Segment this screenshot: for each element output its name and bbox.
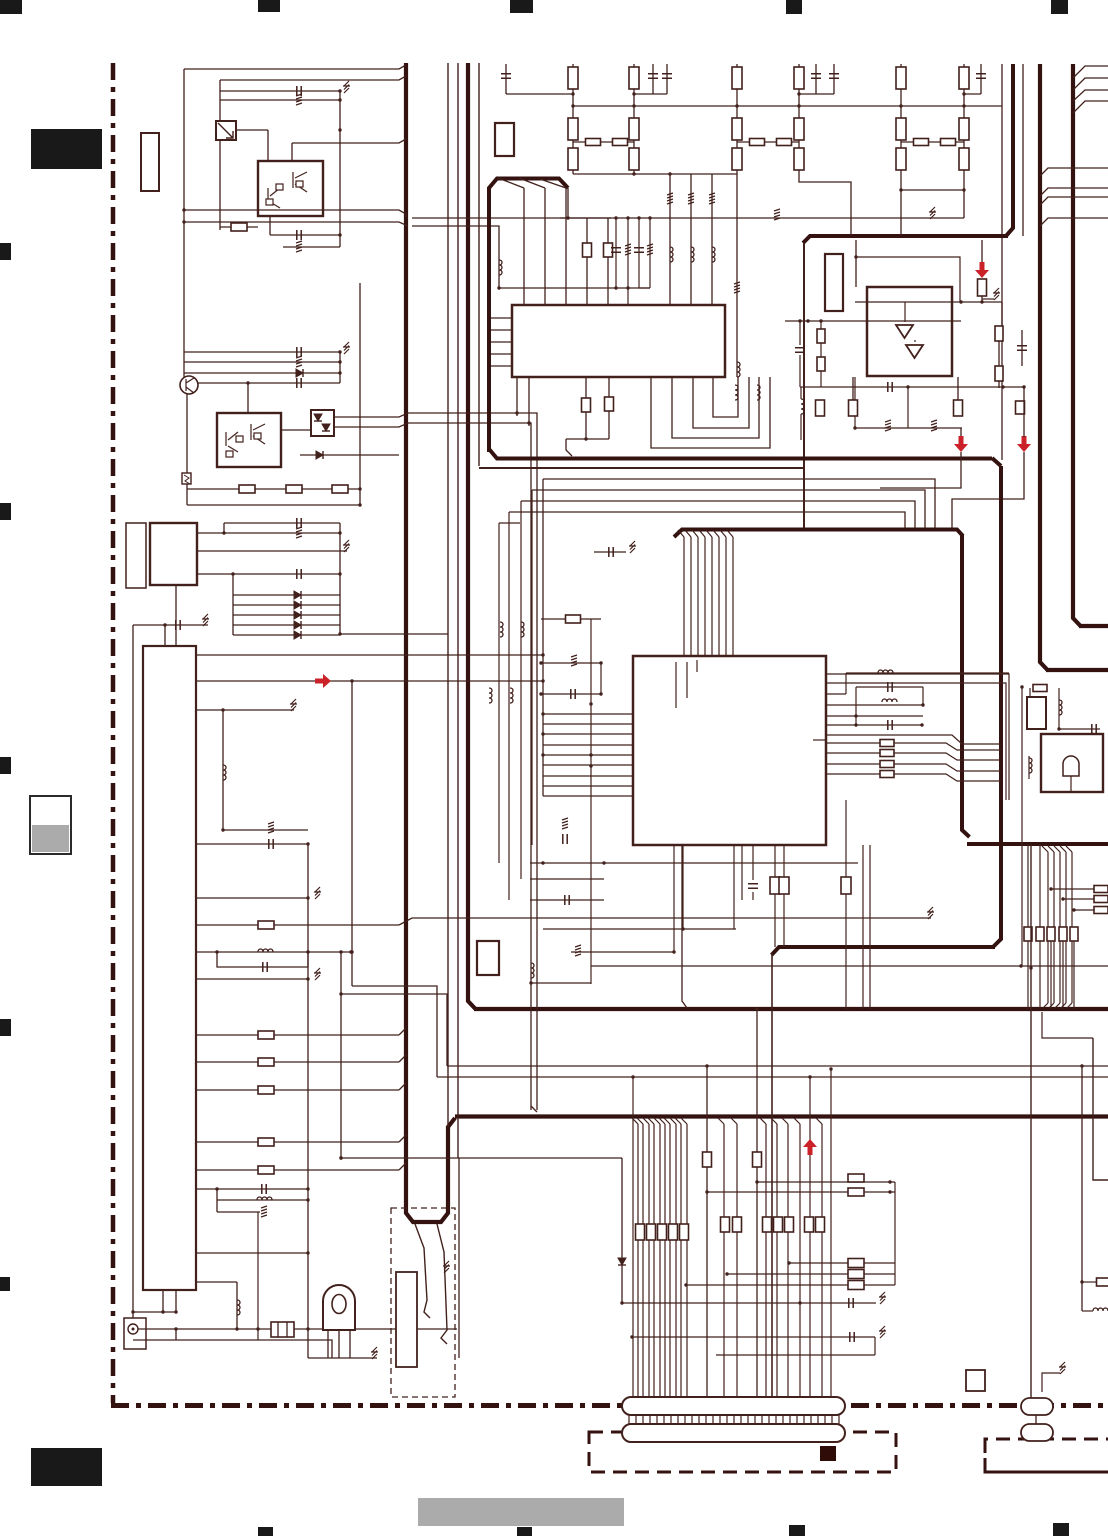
white ref box mid-top <box>495 123 514 156</box>
IC1 left stubs <box>491 317 512 319</box>
wire y257 <box>856 257 960 302</box>
wire x1082 lower right <box>1081 1066 1083 1311</box>
wire y1337 <box>632 1336 875 1338</box>
photo-interrupter box <box>216 121 236 140</box>
bypass cap path y967 <box>217 952 308 967</box>
right connector ellipse 1 <box>1021 1398 1053 1415</box>
bus wire x479 joining y468 rail <box>478 63 480 466</box>
thick rail y626 to right edge <box>1079 624 1108 628</box>
wire y428 with ferrites <box>855 427 962 429</box>
wire outer loop left x184 <box>183 69 185 377</box>
wire y1358 to ground <box>308 1357 377 1359</box>
wire x340 node column <box>339 91 341 247</box>
bundle wire x788 <box>782 1118 788 1124</box>
wire y1158 long <box>341 1157 622 1159</box>
wire opto out y418 <box>334 413 412 417</box>
logic gate glyph inside box D <box>1063 756 1079 776</box>
wire x341 <box>340 952 342 1158</box>
grid link y182 <box>799 174 851 236</box>
wire x186 lower <box>186 394 188 505</box>
resistor row y1224 group4 <box>805 1217 814 1232</box>
registration mark left 2 <box>0 503 11 520</box>
ferrite y247 <box>283 246 340 248</box>
dashed harness box bottom <box>589 1432 896 1472</box>
ladder output y634 <box>340 633 448 635</box>
IC1 top pin cap x616 <box>615 218 617 288</box>
box-C thick rail y844 <box>967 842 1108 846</box>
IC2 left bus x543 <box>542 479 544 796</box>
opto coupler box <box>311 410 334 436</box>
cap branch x800 <box>799 321 801 345</box>
five resistor row x1028-1074 <box>1024 927 1032 941</box>
wire right column x1002 <box>1001 302 1003 326</box>
wire y373 with diode <box>184 372 340 374</box>
wire loop box D top <box>1029 688 1031 697</box>
resistor x1020 y401 <box>1016 401 1025 414</box>
wire x176 stub <box>175 585 177 646</box>
wire x237 with coil <box>236 1282 238 1329</box>
bus wire x458 <box>457 63 459 1158</box>
rail y468 medium <box>479 467 804 469</box>
coil glyph 1 <box>735 385 738 400</box>
coil glyphs left of IC2 <box>500 622 503 637</box>
border left dash-dot <box>111 63 116 1403</box>
diode ladder row 4 <box>233 624 340 626</box>
coil right of rect <box>1058 688 1060 729</box>
bus vertical x804 from rail into mid section <box>803 243 805 529</box>
registration mark left 5 <box>0 1277 10 1291</box>
wire x360 <box>359 283 361 505</box>
op-amp triangle 1 <box>896 325 913 338</box>
wire y918 continuation <box>399 918 601 925</box>
diode ladder row 5 <box>233 634 340 636</box>
pin riser x846 <box>826 693 846 695</box>
capacitor stub x816 <box>815 64 817 94</box>
bundle wire x810 with red arrow <box>809 1077 811 1397</box>
wire x224 stub <box>223 523 225 533</box>
diode drop x622 <box>621 1158 623 1303</box>
diode ladder row 1 <box>233 594 340 596</box>
registration mark top 3 <box>510 0 533 13</box>
staircase wire y479 <box>543 479 935 529</box>
grid row y142 cluster 3 <box>901 141 964 143</box>
connector pin comb <box>629 1416 839 1425</box>
wire y900 with cap <box>530 899 604 901</box>
capacitor stub x981 <box>980 64 982 94</box>
resistor column x799 <box>798 64 800 174</box>
wire y729 with cap <box>1059 728 1100 730</box>
bus thick horizontal y1116 <box>455 1114 1108 1118</box>
wire y388 right <box>1023 388 1025 401</box>
thick jog y458-y466 <box>992 458 1001 466</box>
wire box bottom stub 1 <box>269 216 271 235</box>
bundle wire x737 <box>731 1118 737 1124</box>
wire y929 <box>543 928 736 930</box>
resistor column x634 <box>633 64 635 174</box>
LED symbol <box>323 1285 355 1330</box>
crystal box <box>271 1322 294 1337</box>
black label block bottom-left <box>31 1448 102 1486</box>
coil x801 bottom <box>800 387 802 399</box>
hres above box D <box>1033 687 1047 689</box>
fan of wires under box-C corner <box>678 530 684 537</box>
IC1 bottom stub b <box>528 377 530 426</box>
connector bar tall <box>143 646 196 1290</box>
wire stub into Q-bottom <box>247 383 249 413</box>
pin y743 resistor <box>826 742 880 744</box>
wire y100 with ferrite bead <box>220 99 340 101</box>
pin y774 resistor <box>826 773 880 775</box>
wire x895 link <box>894 1182 896 1285</box>
bundle wire x777 <box>771 1118 777 1124</box>
white box y1370 <box>966 1370 985 1391</box>
wire x1093 to edge <box>1093 1038 1108 1180</box>
wire top y80 to bus <box>220 76 406 80</box>
IC box small column <box>126 523 146 588</box>
red arrow wire x1024 <box>1017 436 1031 452</box>
wire y1189 with capacitor <box>196 1188 308 1190</box>
resistor x982 <box>978 279 987 296</box>
wire y663 with ferrite <box>541 662 601 664</box>
wire x856 into block <box>855 240 857 287</box>
verticals x863 x870 <box>862 845 864 1009</box>
wire opto out y428 <box>334 423 412 427</box>
wire top y69 to bus <box>184 65 406 69</box>
wire y1066 long <box>447 1065 1108 1067</box>
bus thick horizontal y1009 <box>474 1007 1108 1011</box>
wire y489 with three resistors <box>187 488 360 490</box>
IC2 pin marks inside <box>675 662 677 708</box>
resistor column x901 <box>900 64 902 174</box>
wire bar y710 to ground <box>196 709 294 711</box>
long wire pair x531 x537 descend <box>412 423 531 1110</box>
IC1 top pin resistor x587 <box>586 218 588 305</box>
wire y1200 with coil <box>217 1199 308 1201</box>
verticals x1006 x1010 lower <box>1005 734 1007 800</box>
wire y619 with resistor <box>541 618 601 620</box>
wire x1022 drop <box>1021 687 1023 966</box>
dashed box spring contact <box>391 1208 455 1397</box>
wire Q-bottom to opto <box>281 429 311 431</box>
wire into triangle2 <box>914 340 916 342</box>
resistor pair x821 <box>820 321 822 329</box>
wire y1303 with caps <box>622 1302 876 1304</box>
coil glyph 2 <box>757 385 760 400</box>
vertical x855 block side <box>854 377 856 428</box>
ferrite y1212 <box>217 1211 260 1213</box>
wire y218 grid <box>560 217 964 219</box>
wire y1329 main <box>138 1328 457 1330</box>
wire y830 with ferrite <box>223 829 308 831</box>
resistor x853 y400 <box>852 377 854 400</box>
wire y143 into box <box>292 139 406 143</box>
IC2 bottom pins <box>673 845 675 952</box>
wire y674 corner down x1009 <box>826 674 1009 734</box>
power bus thick left (x406) with U-turn to x448 and exit right y1116 <box>406 63 455 1222</box>
white ref box left of IC2 <box>477 941 499 975</box>
resistor R y227 <box>220 226 258 228</box>
contact blade rect <box>396 1272 417 1367</box>
wire y1077 long <box>437 1076 1108 1078</box>
pin y716 <box>826 715 923 717</box>
wire bar y655 <box>196 654 543 656</box>
wire x772 descend medium <box>771 953 773 1397</box>
black label block top-left <box>31 129 102 169</box>
wire x340 column 3 <box>339 523 341 634</box>
transistor glyphs inside Q-top <box>268 172 307 208</box>
wire x1031 ground stub <box>1042 1373 1060 1392</box>
wire y533 with ferrite <box>197 532 340 534</box>
hood fan wire 1 <box>498 178 524 188</box>
registration mark bottom 2 <box>517 1527 532 1536</box>
middle IC big box IC2 <box>633 656 826 845</box>
wire into triangle1 <box>904 302 906 322</box>
vertical below IC2 to thick rail <box>682 845 687 1008</box>
wire y1090 with resistor <box>196 1089 399 1091</box>
box-C right thick border x962 <box>962 534 970 837</box>
wire exits right from x1040 group <box>1040 168 1108 176</box>
thick hood box-B left <box>489 179 568 453</box>
op-amp triangle 2 <box>906 345 923 358</box>
grid row y142 cluster 2 <box>737 141 799 143</box>
wire y1253 <box>196 1252 308 1254</box>
wire y898 to ground <box>196 897 308 899</box>
fuse box on x186 <box>182 473 191 484</box>
wire y994 link <box>341 994 447 1066</box>
IC1 top pin ferrite x650 <box>649 218 651 288</box>
wire y979 to ground <box>196 978 308 980</box>
IC2 left pins <box>543 713 633 715</box>
wire y683 corner down x1006 <box>826 683 1006 734</box>
wire y986 link <box>352 986 437 1077</box>
wire y439 <box>566 438 609 440</box>
resistor column x573 <box>572 64 574 174</box>
hood fan wire 2 <box>519 178 545 188</box>
wire y288 under caps <box>499 287 650 289</box>
bus wire x1002 <box>1001 64 1003 460</box>
registration mark left 1 <box>0 243 11 260</box>
wire x982 below <box>981 296 983 302</box>
ground y85 <box>343 81 350 93</box>
wire y218 right part <box>412 217 611 219</box>
wire y952 with coil <box>196 951 351 953</box>
bar bottom stub 2 <box>175 1290 177 1312</box>
wire y523 with capacitor <box>224 522 340 524</box>
vertical x908 <box>907 387 909 428</box>
coil on x531 <box>531 963 534 978</box>
wire y968 step <box>531 982 591 984</box>
pin y764 resistor <box>826 763 880 765</box>
wire y1311 with coil <box>1082 1310 1093 1312</box>
LC loop cap y687 <box>856 686 923 688</box>
wire x352 <box>351 681 353 986</box>
wire y1340 <box>133 1340 332 1358</box>
left long verticals x499-532 <box>498 523 500 863</box>
ground in spring box <box>443 1261 450 1273</box>
resistors right column x999 <box>995 326 1003 341</box>
registration mark bottom 3 <box>789 1525 805 1536</box>
wire y1035 with resistor <box>196 1034 399 1036</box>
wire y1282 <box>196 1281 237 1283</box>
wire exits top right from x1073 <box>1073 66 1108 78</box>
thick rail y670 to right edge <box>1046 668 1108 672</box>
thick rail y236 to x810 <box>803 236 1008 243</box>
red arrow wire x961 <box>960 428 962 437</box>
white ref box top-left <box>141 133 159 191</box>
colour swatch box <box>30 796 71 854</box>
box-C top thick rail y529 <box>674 530 963 538</box>
wire y879 <box>530 878 604 880</box>
IC1 top pin cap x639 <box>638 218 640 288</box>
bar bottom stub 1 <box>162 1290 164 1312</box>
tall rect left of op-amp <box>825 254 843 311</box>
wire x1024 above <box>1023 401 1025 437</box>
connector stadium bar 1 <box>622 1397 845 1415</box>
power bus thick x1013 turning left at y236 <box>1006 64 1013 236</box>
resistor row y1224 group2 <box>721 1217 730 1232</box>
resistor column x964 <box>963 64 965 174</box>
resistor column x737 <box>736 64 738 174</box>
IC1 bottom nested U wires <box>651 377 770 448</box>
resistor x820 y400 <box>816 400 825 416</box>
colour swatch gray half <box>32 825 69 852</box>
wire y387 with cap <box>800 386 1024 388</box>
column x737 extension <box>736 174 738 377</box>
pin y735 <box>826 735 1001 744</box>
wire y1285 <box>686 1284 895 1286</box>
wire y210 long <box>184 210 406 218</box>
LED legs <box>327 1330 329 1358</box>
wire x165 stub <box>164 625 166 646</box>
wire y1312 <box>133 1311 176 1313</box>
wire y505 <box>187 504 360 506</box>
diode ladder row 3 <box>233 614 340 616</box>
staircase wire y501 <box>521 501 915 529</box>
wire y1263 <box>789 1262 895 1264</box>
transistor pair box Q-top <box>258 161 323 216</box>
grid link y174 <box>573 173 737 175</box>
right connector ellipse 2 <box>1021 1424 1053 1441</box>
wire y91 with capacitor <box>220 90 340 92</box>
jack plug box <box>124 1318 146 1349</box>
wire y1062 with resistor <box>196 1061 399 1063</box>
wire y1192 with resistors <box>707 1191 895 1193</box>
link x601 <box>600 663 602 694</box>
wire y1274 <box>727 1273 895 1275</box>
box-B bottom thick rail y458 <box>489 449 992 459</box>
transistor glyphs inside Q-bottom <box>226 424 265 452</box>
wire y1142 with resistor <box>196 1141 399 1143</box>
wire y1355 <box>716 1354 875 1356</box>
wire exit right y218b <box>1040 218 1108 226</box>
wire y352 with capacitor <box>184 351 340 353</box>
right connector link <box>1035 1415 1037 1424</box>
IC2 inner tick right <box>813 739 826 741</box>
wire y925 long with resistor <box>196 924 399 926</box>
bundle wire x831 <box>830 1069 832 1397</box>
wire x901 down to rail <box>900 190 902 236</box>
wire y574 with capacitor <box>197 573 340 575</box>
LC loop verticals <box>855 687 857 725</box>
capacitor stub x653 <box>652 64 654 94</box>
hatch column x712 with coil <box>711 174 713 305</box>
power bus thick x1040 turning right at y670 <box>1040 64 1048 670</box>
bundle wire x724 <box>718 1118 724 1124</box>
registration mark left 3 <box>0 757 11 774</box>
box D logic box <box>1041 734 1103 792</box>
wire y227 long <box>219 226 221 228</box>
hatch column x670 with coil <box>669 174 671 305</box>
wire y302 through block <box>855 301 1002 303</box>
IC1 bottom stub a <box>516 377 518 416</box>
wire y863 long <box>530 862 858 864</box>
registration mark top 5 <box>1051 0 1068 14</box>
power bus thick x468 turning right at y1009 <box>468 63 476 1009</box>
ladder left rail <box>232 574 234 635</box>
ground x997 y300 <box>982 298 994 300</box>
wire x1042 corner <box>1042 1012 1093 1038</box>
coil left of box D <box>1028 756 1030 779</box>
wire x1031 long to connector <box>1030 844 1032 1398</box>
border bottom dash-dot <box>111 1403 1108 1408</box>
op-amp block box <box>867 287 952 376</box>
hatch column x691 with coil <box>690 174 692 305</box>
resistor row y1224 group3 <box>763 1217 772 1232</box>
IC1 top pin resistor x608 <box>607 218 609 305</box>
capacitor stub x667 <box>666 64 668 94</box>
wire x340 column 2 <box>339 352 341 383</box>
wire y235 with capacitor <box>270 234 340 236</box>
wire x707 resistor <box>706 1066 708 1397</box>
capacitor x1022 y348 <box>1021 330 1023 366</box>
registration mark top 4 <box>786 0 802 14</box>
wire y1170 with resistor <box>196 1169 399 1171</box>
five wires from rail y844 through resistors <box>1042 846 1048 852</box>
grid rail y106 <box>573 105 1002 107</box>
wire x223 with coil <box>222 710 224 830</box>
bundle group 1 from thick rail <box>632 1118 638 1124</box>
red arrow up x810 <box>803 1139 817 1155</box>
pin y725 with cap <box>826 724 922 726</box>
staircase wire y512 <box>509 512 905 529</box>
IC1 resistor leg 1 <box>585 377 587 439</box>
wire link x591b <box>590 927 592 984</box>
thick rail y947 to left <box>772 947 996 955</box>
pin y705 with coil <box>826 704 923 706</box>
bundle wire x822 <box>816 1118 822 1124</box>
diode ladder row 2 <box>233 604 340 606</box>
bus x591 long <box>590 619 592 927</box>
cap ferrite cluster left of IC2 <box>594 551 626 553</box>
wire y362 with ferrite <box>184 361 340 363</box>
resistor x958 y400 <box>957 377 959 400</box>
bundle wire x633 <box>632 1077 634 1397</box>
pin y673 with coil <box>846 672 1009 674</box>
hood stub x568 <box>567 188 569 218</box>
IC box mid-left <box>150 523 197 585</box>
wire y844 with capacitor <box>196 843 308 845</box>
wire y226 right part corner <box>412 226 499 288</box>
wire y952 with ferrite <box>571 951 674 953</box>
power bus thick x1073 turning right at y626 <box>1073 64 1081 626</box>
hood fan wire 3 <box>540 179 566 188</box>
wire x757 resistor <box>756 1009 758 1397</box>
registration mark bottom 4 <box>1053 1523 1069 1536</box>
capacitor stub x506 <box>505 64 507 94</box>
wire x220 stub <box>219 80 221 230</box>
wire photo box to x268 <box>236 129 268 131</box>
staircase wire y490 <box>532 490 925 529</box>
